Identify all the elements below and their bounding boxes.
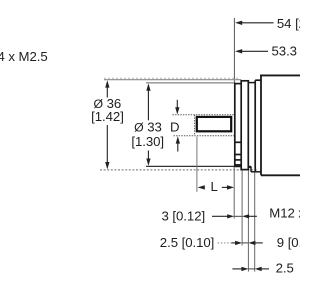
svg-text:54 [2.13]: 54 [2.13] <box>277 16 300 31</box>
svg-text:L: L <box>211 179 218 194</box>
shaft phantom left edge (dashed) <box>194 115 196 136</box>
extension line Ø33 top <box>146 82 236 84</box>
extension line Ø36 bottom (dotted) <box>100 169 258 171</box>
svg-text:53.3 [2.10]: 53.3 [2.10] <box>272 43 301 58</box>
clamp detail rung 3 <box>235 159 242 161</box>
ring 2 top edge <box>255 79 261 81</box>
groove top edge <box>248 82 255 84</box>
extension line v4 <box>254 172 256 271</box>
svg-text:4 x M2.5: 4 x M2.5 <box>0 49 48 64</box>
svg-text:D: D <box>170 119 179 134</box>
clamping ring Ø36 <box>241 81 248 170</box>
dimension 3 [0.12] <box>162 208 257 223</box>
dimension L <box>197 137 234 194</box>
extension line Ø33 bottom <box>146 165 251 167</box>
dimension 54 [2.13] <box>235 16 320 31</box>
dimension 2.5 [0.10] <box>160 235 263 250</box>
bottom step horizontal <box>251 171 262 173</box>
dimension Ø36 [1.42] <box>91 80 124 169</box>
ring 2 left edge <box>254 80 256 172</box>
extension line v3 <box>247 170 249 271</box>
dimension D <box>170 100 180 152</box>
shaft solid body <box>197 117 231 131</box>
svg-text:9 [0.35]: 9 [0.35] <box>277 235 300 250</box>
dimension 2.5 (groove width) <box>232 261 293 276</box>
svg-text:3 [0.12]: 3 [0.12] <box>162 208 206 223</box>
svg-text:M12 x 1: M12 x 1 <box>269 205 300 220</box>
groove bottom step vertical <box>250 166 252 171</box>
clamp detail rung 1 <box>235 141 242 143</box>
svg-text:[1.30]: [1.30] <box>131 134 164 149</box>
dimension Ø33 [1.30] <box>131 83 164 165</box>
extension line top (dim 54/53.3) <box>233 18 235 84</box>
extension line D top (dashed, continues as shaft phantom top) <box>173 114 236 116</box>
dimension 53.3 [2.10] <box>235 43 320 58</box>
svg-text:2.5 [0.10]: 2.5 [0.10] <box>160 235 215 250</box>
extension line D bottom (dashed, continues as shaft phantom bottom) <box>174 135 236 137</box>
extension line v1 (front face, below) <box>233 167 235 219</box>
front plate (Ø33 pilot) <box>235 84 242 167</box>
clamp detail rung 4 <box>235 164 242 166</box>
svg-text:2.5: 2.5 <box>276 261 294 276</box>
groove bottom edge <box>248 166 251 168</box>
extension line v2 <box>241 170 243 245</box>
housing body <box>260 75 301 175</box>
clamp detail rung 2 <box>235 154 242 156</box>
svg-text:Ø 33: Ø 33 <box>134 119 162 134</box>
extension line Ø36 top <box>104 77 240 79</box>
svg-text:[1.42]: [1.42] <box>91 109 124 124</box>
